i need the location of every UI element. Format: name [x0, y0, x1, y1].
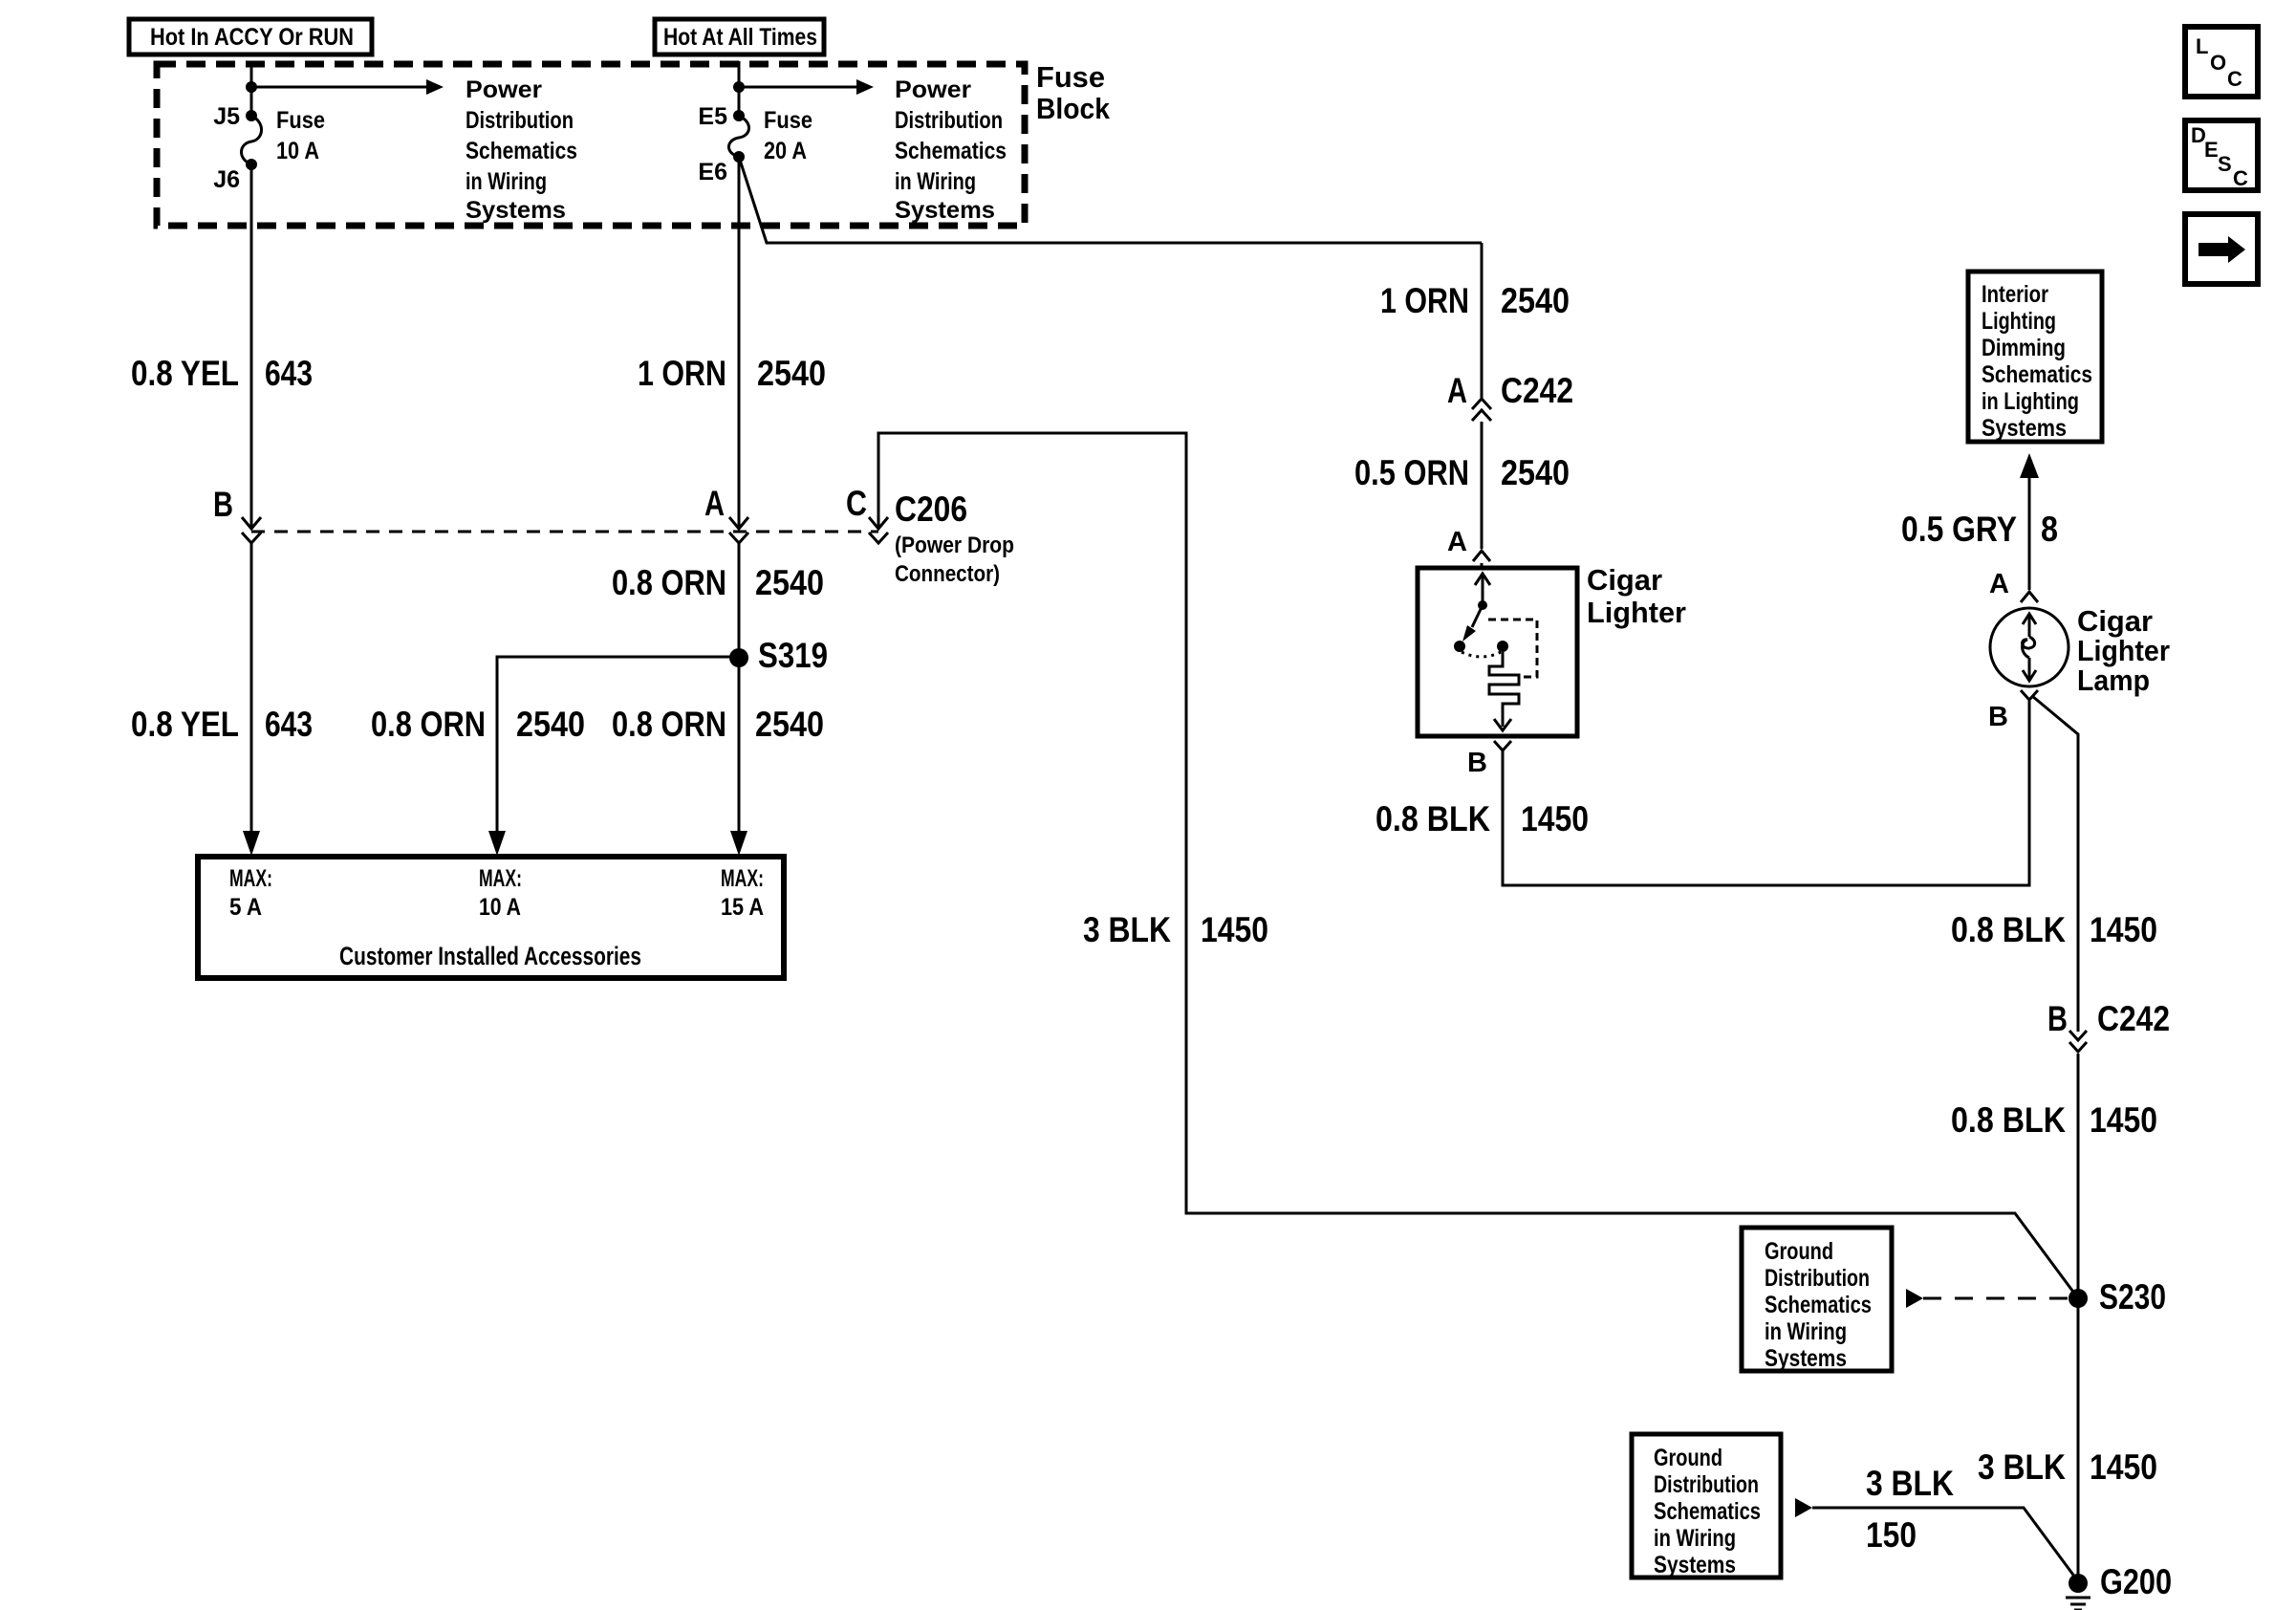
svg-text:J5: J5	[213, 103, 240, 130]
svg-text:MAX:: MAX:	[721, 865, 764, 892]
svg-text:Lighter: Lighter	[1587, 596, 1686, 629]
pin A of cigar lighter lamp	[1989, 569, 2038, 602]
cigar lighter internal: feed arrow and switch contact	[1462, 563, 1490, 642]
label: 0.8 YEL 643 (upper)	[131, 354, 313, 393]
svg-text:1450: 1450	[2090, 1447, 2157, 1487]
label: Cigar Lighter Lamp	[2077, 604, 2170, 697]
svg-text:0.8 ORN: 0.8 ORN	[612, 705, 726, 744]
svg-text:0.8 YEL: 0.8 YEL	[131, 354, 239, 393]
svg-text:Schematics: Schematics	[1654, 1498, 1761, 1525]
svg-text:20 A: 20 A	[764, 138, 807, 164]
svg-text:A: A	[704, 484, 725, 523]
label: Power Distribution Schematics in Wiring Systems (left)	[466, 76, 577, 224]
label: 0.8 BLK 1450 (lighter ground lead)	[1375, 799, 1589, 838]
label: Cigar Lighter	[1587, 563, 1686, 629]
svg-text:2540: 2540	[755, 563, 824, 602]
svg-text:2540: 2540	[516, 705, 585, 744]
svg-text:Distribution: Distribution	[466, 107, 574, 134]
connector C242 pin B	[2047, 999, 2170, 1052]
svg-text:1450: 1450	[1521, 799, 1589, 838]
svg-text:C206: C206	[895, 490, 967, 529]
wire: 0.8 BLK 1450 from lamp pin B to connector C242 pin B	[2032, 696, 2078, 1032]
svg-text:Systems: Systems	[1982, 415, 2067, 442]
wire: C206 pin B to Customer Installed Accessories	[250, 543, 253, 833]
wire: 0.8 BLK 1450 from lighter pin B down and right	[1503, 701, 2029, 885]
svg-text:Power: Power	[466, 76, 542, 103]
svg-text:0.5 GRY: 0.5 GRY	[1901, 510, 2017, 549]
svg-text:Systems: Systems	[466, 197, 566, 224]
svg-text:Power: Power	[895, 76, 971, 103]
svg-text:Ground: Ground	[1765, 1238, 1833, 1265]
svg-text:2540: 2540	[757, 354, 826, 393]
label: 0.8 ORN 2540 (below S319)	[612, 705, 824, 744]
cigar lighter internal: heating element (resistor meander)	[1489, 652, 1519, 730]
svg-text:Distribution: Distribution	[1765, 1265, 1870, 1292]
svg-text:643: 643	[265, 705, 313, 744]
svg-text:Distribution: Distribution	[895, 107, 1003, 134]
ground G200	[2066, 1562, 2172, 1610]
wire: arrow to Power Distribution reference (left)	[251, 79, 444, 95]
svg-text:2540: 2540	[1501, 453, 1570, 492]
svg-text:in Wiring: in Wiring	[1654, 1525, 1736, 1552]
wire: C206 pin C up and over to ground run (3 BLK 1450)	[878, 433, 2078, 1298]
svg-text:150: 150	[1866, 1515, 1917, 1555]
svg-text:0.8 YEL: 0.8 YEL	[131, 705, 239, 744]
svg-text:Fuse: Fuse	[276, 107, 325, 134]
svg-text:S319: S319	[758, 636, 828, 675]
svg-text:B: B	[213, 485, 233, 524]
svg-text:1450: 1450	[2090, 1100, 2157, 1140]
svg-text:C242: C242	[2097, 999, 2170, 1038]
pin J6	[213, 159, 257, 193]
svg-text:Ground: Ground	[1654, 1445, 1722, 1471]
pin J5	[213, 103, 257, 130]
label: C206 (Power Drop Connector)	[895, 490, 1014, 587]
svg-text:B: B	[1467, 748, 1487, 778]
label: Power Distribution Schematics in Wiring Systems (right)	[895, 76, 1007, 224]
svg-text:10 A: 10 A	[479, 894, 521, 921]
label: 1 ORN 2540 (right run)	[1380, 281, 1570, 320]
svg-text:Cigar: Cigar	[2077, 604, 2153, 638]
fuse: 10 A (J5-J6)	[241, 116, 261, 164]
svg-text:Schematics: Schematics	[895, 138, 1007, 164]
svg-text:1 ORN: 1 ORN	[1380, 281, 1469, 320]
svg-text:Connector): Connector)	[895, 561, 1000, 587]
cigar lighter internal: dashed housing outline	[1488, 620, 1537, 677]
svg-text:G200: G200	[2100, 1562, 2172, 1601]
svg-text:MAX:: MAX:	[479, 865, 522, 892]
wire: 3 BLK 1450 from S230 down to ground G200	[2077, 1298, 2080, 1577]
svg-text:Lighter: Lighter	[2077, 634, 2170, 667]
wire: S319 branch to left then down to Customer Installed Accessories	[488, 657, 739, 856]
label box: Hot At All Times	[655, 19, 824, 54]
svg-text:B: B	[2047, 999, 2068, 1038]
pin A of cigar lighter	[1447, 527, 1490, 561]
splice S319	[729, 636, 828, 675]
component box: Customer Installed Accessories	[198, 857, 784, 978]
reference box: Ground Distribution Schematics in Wiring Systems (G200)	[1632, 1434, 1781, 1578]
svg-text:E: E	[2204, 138, 2219, 162]
wire: 0.8 BLK 1450 from C242 pin B down to splice S230	[2077, 1054, 2080, 1298]
svg-text:B: B	[1988, 702, 2008, 732]
svg-text:8: 8	[2041, 510, 2058, 549]
label: 3 BLK 150	[1866, 1464, 1954, 1555]
svg-text:0.8 ORN: 0.8 ORN	[371, 705, 486, 744]
svg-text:in Wiring: in Wiring	[466, 168, 547, 195]
wire: 0.8 YEL 643 from J6 down to connector C206 pin B	[250, 164, 253, 529]
label: 0.8 ORN 2540 (above S319)	[612, 563, 824, 602]
svg-text:1 ORN: 1 ORN	[638, 354, 726, 393]
wire: hot feed into right fuse	[738, 61, 741, 116]
pin C chevron is above; label 3 BLK 1450 on long vertical	[1083, 910, 1268, 949]
svg-text:0.5 ORN: 0.5 ORN	[1354, 453, 1469, 492]
svg-text:643: 643	[265, 354, 313, 393]
svg-text:S230: S230	[2099, 1277, 2166, 1316]
splice S230	[2069, 1277, 2166, 1316]
pin E6	[698, 151, 745, 185]
node: junction at left fuse feed	[246, 81, 257, 93]
svg-text:Interior: Interior	[1982, 281, 2048, 308]
svg-text:0.8 BLK: 0.8 BLK	[1951, 1100, 2066, 1140]
svg-text:0.8 BLK: 0.8 BLK	[1951, 910, 2066, 949]
svg-text:A: A	[1989, 569, 2009, 599]
svg-text:15 A: 15 A	[721, 894, 764, 921]
svg-text:2540: 2540	[755, 705, 824, 744]
svg-text:S: S	[2218, 152, 2232, 176]
label: 0.8 YEL 643 (lower)	[131, 705, 313, 744]
svg-text:E6: E6	[698, 159, 727, 185]
svg-text:0.8 BLK: 0.8 BLK	[1375, 799, 1490, 838]
dashed reference link to S230	[1906, 1289, 2069, 1308]
wire: 3 BLK 150 reference link to G200	[1795, 1498, 2078, 1581]
wire: 0.5 ORN 2540 from C242 to cigar lighter pin A	[1481, 422, 1484, 549]
svg-text:C: C	[2227, 67, 2242, 91]
legend box: DESC	[2185, 120, 2258, 190]
pin A of C206	[704, 484, 748, 543]
node: junction at right fuse feed	[733, 81, 745, 93]
svg-text:0.8 ORN: 0.8 ORN	[612, 563, 726, 602]
svg-text:Fuse: Fuse	[1036, 60, 1105, 94]
svg-text:Schematics: Schematics	[1982, 361, 2092, 388]
svg-text:Systems: Systems	[1765, 1345, 1847, 1372]
svg-text:J6: J6	[213, 166, 240, 193]
svg-text:Cigar: Cigar	[1587, 563, 1662, 597]
svg-text:1450: 1450	[2090, 910, 2157, 949]
svg-text:(Power Drop: (Power Drop	[895, 533, 1014, 558]
svg-text:1450: 1450	[1201, 910, 1268, 949]
svg-text:A: A	[1447, 371, 1467, 410]
svg-text:Systems: Systems	[1654, 1552, 1736, 1578]
svg-text:Dimming: Dimming	[1982, 335, 2066, 361]
pin C of C206	[846, 484, 888, 543]
fuse: 20 A (E5-E6)	[728, 116, 748, 157]
svg-text:A: A	[1447, 527, 1467, 557]
pin E5	[698, 103, 745, 130]
svg-text:2540: 2540	[1501, 281, 1570, 320]
label box: Hot In ACCY Or RUN	[129, 19, 372, 54]
connector C206 dashed line	[251, 531, 878, 533]
svg-text:Schematics: Schematics	[466, 138, 577, 164]
wire: C206 pin A down to splice S319	[738, 543, 741, 658]
legend box: forward arrow	[2185, 214, 2258, 284]
svg-text:in Lighting: in Lighting	[1982, 388, 2079, 415]
svg-text:Lamp: Lamp	[2077, 664, 2150, 697]
label: Fuse 10 A	[276, 107, 325, 164]
svg-text:3 BLK: 3 BLK	[1866, 1464, 1954, 1503]
component box: Cigar Lighter	[1418, 568, 1577, 736]
svg-text:in Wiring: in Wiring	[895, 168, 976, 195]
svg-text:E5: E5	[698, 103, 727, 130]
wire: hot feed into left fuse	[250, 61, 253, 116]
svg-text:Distribution: Distribution	[1654, 1471, 1759, 1498]
svg-text:Hot At All Times: Hot At All Times	[663, 24, 817, 51]
pin B of cigar lighter	[1467, 741, 1511, 778]
legend box: LOC	[2185, 27, 2258, 97]
svg-text:L: L	[2196, 34, 2208, 58]
fuse block dashed boundary	[157, 64, 1025, 226]
label: 3 BLK 1450 (to G200)	[1978, 1447, 2157, 1487]
label: Fuse 20 A	[764, 107, 812, 164]
wire: 0.5 GRY 8 from lamp pin A up to Interior Lighting reference	[2020, 453, 2039, 590]
svg-text:Block: Block	[1036, 92, 1111, 125]
label: Fuse Block	[1036, 60, 1111, 125]
reference box: Interior Lighting Dimming Schematics in Lighting Systems	[1968, 272, 2102, 442]
svg-text:3 BLK: 3 BLK	[1083, 910, 1171, 949]
svg-text:C242: C242	[1501, 371, 1573, 410]
wire: E6 feed to cigar lighter run (diagonal + horizontal)	[739, 157, 1482, 243]
wire: S319 down to Customer Installed Accessories	[730, 658, 747, 856]
svg-text:C: C	[846, 484, 867, 523]
svg-text:Lighting: Lighting	[1982, 308, 2056, 335]
reference box: Ground Distribution Schematics in Wiring Systems (S230)	[1742, 1228, 1892, 1372]
pin B of C206	[213, 485, 261, 543]
svg-text:3 BLK: 3 BLK	[1978, 1447, 2066, 1487]
connector C242 pin A	[1447, 371, 1573, 421]
svg-text:Schematics: Schematics	[1765, 1292, 1872, 1318]
lamp: Cigar Lighter Lamp	[1990, 608, 2069, 686]
svg-text:Fuse: Fuse	[764, 107, 812, 134]
label: 0.8 BLK 1450 (below C242 B)	[1951, 1100, 2157, 1140]
wire: 1 ORN 2540 vertical to connector C242 pin A	[1481, 243, 1484, 399]
svg-text:MAX:: MAX:	[229, 865, 272, 892]
svg-text:C: C	[2233, 166, 2248, 190]
label: 1 ORN 2540 (left vertical)	[638, 354, 826, 393]
svg-text:Systems: Systems	[895, 197, 995, 224]
label: 0.5 GRY 8	[1901, 510, 2058, 549]
svg-text:Customer Installed Accessories: Customer Installed Accessories	[339, 942, 641, 970]
svg-text:O: O	[2210, 51, 2226, 75]
label: 0.5 ORN 2540	[1354, 453, 1570, 492]
svg-text:in Wiring: in Wiring	[1765, 1318, 1847, 1345]
svg-text:5 A: 5 A	[229, 894, 262, 921]
wire: arrow to Power Distribution reference (right)	[739, 79, 874, 95]
svg-text:10 A: 10 A	[276, 138, 319, 164]
cigar lighter internal: contacts and dotted travel arc	[1454, 641, 1508, 657]
label: 0.8 BLK 1450 (above C242 B)	[1951, 910, 2157, 949]
wire: 1 ORN 2540 from E6 down to connector C206 pin A	[738, 157, 741, 529]
pin B of cigar lighter lamp	[1988, 690, 2038, 732]
svg-text:Hot In ACCY Or RUN: Hot In ACCY Or RUN	[150, 24, 354, 51]
label: 0.8 ORN 2540 (branch)	[371, 705, 585, 744]
